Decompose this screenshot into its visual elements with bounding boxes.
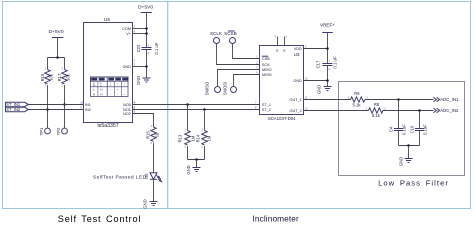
capacitor C4 xyxy=(388,124,406,135)
svg-text:C17: C17 xyxy=(315,60,320,68)
svg-text:R14: R14 xyxy=(195,134,200,142)
wire SCSB to U3.CSB xyxy=(233,44,260,59)
wire SMISO to U3.MISO xyxy=(218,70,260,87)
svg-text:TP1: TP1 xyxy=(39,127,44,135)
wire ST_IN1 to U5.IN1 xyxy=(29,104,84,106)
svg-text:•: • xyxy=(117,88,118,92)
svg-text:C22: C22 xyxy=(136,44,141,52)
ground (C22) xyxy=(136,76,150,85)
svg-text:ST_IN2: ST_IN2 xyxy=(6,107,21,112)
node ST_1/R13 junction xyxy=(186,103,189,106)
svg-text:D+5V0: D+5V0 xyxy=(48,29,63,35)
node GND junction xyxy=(326,79,329,82)
svg-text:NO0: NO0 xyxy=(123,103,131,107)
svg-text:U3: U3 xyxy=(294,52,300,57)
ground (filter caps) xyxy=(399,157,413,166)
power D+5V0 (left) xyxy=(48,29,63,58)
inclinometer IC U3 body xyxy=(260,46,304,121)
sheet border right section xyxy=(168,2,471,209)
wire OUT_2 to R8 xyxy=(304,110,369,112)
U5 truth table xyxy=(91,77,129,97)
port ST_IN1 xyxy=(6,102,29,107)
svg-text:ST_2: ST_2 xyxy=(262,108,271,112)
svg-text:R17: R17 xyxy=(57,73,62,81)
svg-text:GND: GND xyxy=(136,76,141,85)
wire C22 bottom to gnd xyxy=(146,50,148,79)
svg-text:H: H xyxy=(93,92,95,96)
svg-text:Self Test Control: Self Test Control xyxy=(58,214,141,224)
svg-text:R15: R15 xyxy=(146,130,151,138)
ground (LED) xyxy=(142,199,157,208)
wire R13/R14 gnd rail xyxy=(188,159,205,161)
svg-text:IN2: IN2 xyxy=(85,108,91,112)
analog switch IC U5 body xyxy=(84,17,133,129)
svg-text:TP: TP xyxy=(283,49,287,53)
wire R14 top lead xyxy=(204,110,206,131)
svg-text:ST_1: ST_1 xyxy=(262,103,271,107)
svg-text:R9: R9 xyxy=(354,91,360,96)
svg-text:SCK: SCK xyxy=(262,63,270,67)
node ST_2/R14 junction xyxy=(203,108,206,111)
U3 pin labels xyxy=(262,47,302,113)
svg-text:10k: 10k xyxy=(65,73,70,81)
Low Pass Filter box xyxy=(339,82,465,176)
wire NO2 bend xyxy=(133,114,154,128)
resistor R14 xyxy=(195,127,211,148)
node C4 tap xyxy=(397,98,400,101)
svg-text:TP2: TP2 xyxy=(56,127,61,135)
wire R14 bottom lead xyxy=(204,146,206,159)
wire NO1 to ST_2 xyxy=(133,109,260,111)
sheet border left section xyxy=(3,2,168,209)
svg-text:GND: GND xyxy=(142,199,147,208)
svg-text:D+5V0: D+5V0 xyxy=(138,5,153,11)
wire R13 top lead xyxy=(187,105,189,131)
wire rail to gnd xyxy=(408,146,410,159)
wire R15 to LED xyxy=(153,143,155,173)
node C10 tap xyxy=(418,109,421,112)
resistor R15 xyxy=(146,124,160,145)
wire ST_IN2 to U5.IN2 xyxy=(29,109,84,111)
node VDD junction xyxy=(326,47,329,50)
wire R9 to ADC_IN1 xyxy=(365,99,434,101)
svg-text:-: - xyxy=(110,92,111,96)
capacitor C22 xyxy=(136,42,159,55)
wire C17 bottom to gnd rail xyxy=(327,66,329,87)
svg-text:SCSB: SCSB xyxy=(224,31,237,36)
power VREF+ xyxy=(320,23,335,64)
wire C4 top lead xyxy=(398,100,400,129)
svg-text:SelfTest Passed LED: SelfTest Passed LED xyxy=(93,175,147,180)
testpoint SMOSI xyxy=(223,82,237,96)
LED D5 SelfTest Passed xyxy=(93,173,162,182)
svg-text:GND: GND xyxy=(399,157,404,166)
svg-text:D5: D5 xyxy=(144,173,149,179)
U3 pin numbers xyxy=(255,45,308,111)
resistor R13 xyxy=(177,127,195,148)
wire U3.GND to rail xyxy=(304,80,328,82)
svg-text:-: - xyxy=(110,88,111,92)
svg-text:R8: R8 xyxy=(374,102,380,107)
svg-text:SCA103T-D04: SCA103T-D04 xyxy=(268,116,296,121)
svg-text:5.1k: 5.1k xyxy=(353,102,362,107)
wire rail to gnd xyxy=(196,160,198,168)
wire C10 top lead xyxy=(419,111,421,129)
wire R16 bottom to TP1 xyxy=(47,85,49,128)
U3 top pin stubs xyxy=(275,35,288,53)
capacitor C17 xyxy=(315,56,337,71)
svg-text:H: H xyxy=(101,92,103,96)
svg-text:-: - xyxy=(117,92,118,96)
wire LED to gnd xyxy=(153,179,155,201)
wire R17 bottom to TP2 xyxy=(64,85,66,128)
wire U5.V+ to rail xyxy=(133,33,147,35)
svg-text:SCLK: SCLK xyxy=(210,31,223,36)
wire OUT_1 to R9 xyxy=(304,99,351,101)
svg-text:GND: GND xyxy=(186,165,191,174)
svg-text:0.1 uF: 0.1 uF xyxy=(154,42,159,54)
node COM junction xyxy=(145,27,148,30)
resistor R17 xyxy=(57,66,71,87)
port ST_IN2 xyxy=(6,107,29,112)
resistor R8 xyxy=(366,102,387,118)
wire U5.COM to rail xyxy=(133,28,147,30)
wire U3.VDD to rail xyxy=(304,48,328,50)
node gnd rail xyxy=(195,158,198,161)
svg-text:5.1k: 5.1k xyxy=(372,113,381,118)
svg-text:V+: V+ xyxy=(126,32,132,36)
svg-text:IN1: IN1 xyxy=(85,103,91,107)
svg-text:CSB: CSB xyxy=(262,57,270,61)
svg-text:TP: TP xyxy=(276,49,280,53)
svg-text:•: • xyxy=(124,92,125,96)
wire R16 top lead xyxy=(47,58,49,70)
port ADC_IN2 xyxy=(433,108,459,113)
svg-text:0.1uF: 0.1uF xyxy=(402,124,407,135)
svg-text:Inclinometer: Inclinometer xyxy=(252,213,299,223)
svg-text:C4: C4 xyxy=(388,126,393,132)
power D+5V0 (above C22) xyxy=(138,5,153,48)
U5 pin numbers xyxy=(80,25,135,114)
svg-text:MISO: MISO xyxy=(262,68,272,72)
U5 pin labels xyxy=(85,27,132,116)
capacitor C10 xyxy=(409,124,427,135)
resistor R16 xyxy=(40,66,54,87)
svg-text:0.1uF: 0.1uF xyxy=(423,124,428,135)
testpoint TP2 xyxy=(56,127,67,135)
svg-text:GND: GND xyxy=(293,79,302,83)
wire R8 to ADC_IN2 xyxy=(383,110,434,112)
svg-text:OUT_2: OUT_2 xyxy=(290,109,302,113)
testpoint SCSB xyxy=(224,31,237,44)
svg-text:VDD: VDD xyxy=(294,47,302,51)
svg-text:COM: COM xyxy=(122,27,131,31)
wire C10 bottom lead xyxy=(419,131,421,146)
svg-text:1M: 1M xyxy=(207,135,212,141)
svg-text:R13: R13 xyxy=(177,134,182,142)
wire SMOSI to U3.MOSI xyxy=(234,75,260,87)
svg-text:GND: GND xyxy=(122,65,131,69)
node R17/ST_IN1 junction xyxy=(63,103,66,106)
testpoint SCLK xyxy=(210,31,223,44)
svg-text:R16: R16 xyxy=(40,73,45,81)
svg-text:OUT_1: OUT_1 xyxy=(290,98,302,102)
resistor R9 xyxy=(348,91,369,107)
svg-text:ts5a3357: ts5a3357 xyxy=(97,123,118,129)
svg-text:-: - xyxy=(124,88,125,92)
node V+ junction xyxy=(145,32,148,35)
wire C4 bottom lead xyxy=(398,131,400,146)
svg-text:Low Pass Filter: Low Pass Filter xyxy=(378,179,449,188)
node cap gnd rail xyxy=(407,144,410,147)
svg-text:VREF+: VREF+ xyxy=(320,23,335,28)
wire SCLK to U3.SCK xyxy=(217,44,260,65)
svg-text:SMOSI: SMOSI xyxy=(223,82,228,96)
wire R13 bottom lead xyxy=(187,146,189,159)
ground (R13/R14) xyxy=(186,165,201,174)
wire U5.GND to rail xyxy=(133,66,147,68)
wire pull-up split xyxy=(48,57,65,59)
node GND junction xyxy=(145,65,148,68)
wire NO0 to ST_1 (net crosses divider) xyxy=(133,104,260,106)
svg-text:C10: C10 xyxy=(409,125,414,133)
svg-text:10k: 10k xyxy=(48,73,53,81)
svg-text:U5: U5 xyxy=(104,17,110,23)
port ADC_IN1 xyxy=(433,97,459,102)
testpoint SMISO xyxy=(205,81,221,95)
node pullup T xyxy=(56,56,59,59)
svg-text:SMISO: SMISO xyxy=(205,81,210,95)
svg-text:MOSI: MOSI xyxy=(262,73,272,77)
svg-text:ADC_IN1: ADC_IN1 xyxy=(440,97,459,102)
ground (C17) xyxy=(317,85,332,94)
wire R17 top lead xyxy=(64,58,66,70)
svg-text:NO2: NO2 xyxy=(123,112,131,116)
wire cap gnd rail xyxy=(399,145,420,147)
testpoint TP1 xyxy=(39,127,50,135)
svg-text:0.1 uF: 0.1 uF xyxy=(333,56,338,68)
svg-text:ADC_IN2: ADC_IN2 xyxy=(440,108,459,113)
node R16/ST_IN2 junction xyxy=(46,108,49,111)
svg-text:H: H xyxy=(101,88,103,92)
svg-text:GND: GND xyxy=(317,85,322,94)
